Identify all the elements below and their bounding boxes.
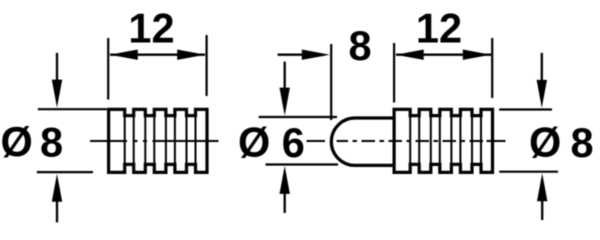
svg-text:8: 8 (571, 119, 594, 166)
dia8 left: bottom arrow (56, 196, 58, 222)
dim 12 left: dimension line (110, 54, 205, 56)
dowel pin nose (331, 118, 394, 165)
dim 12 left: arrowheads (110, 50, 138, 60)
dim 12 right: arrowheads (396, 50, 424, 60)
dia8 right: top arrow (541, 53, 543, 82)
svg-text:Ø: Ø (1, 119, 33, 166)
dim 12 left: extension lines (108, 35, 206, 100)
right part centerline (307, 140, 506, 142)
dia8 left: top arrow (56, 53, 58, 85)
svg-text:8: 8 (40, 119, 63, 166)
svg-text:Ø: Ø (529, 119, 561, 166)
right sleeve rib wall lines (410, 116, 481, 165)
left sleeve rib wall lines (125, 116, 196, 165)
svg-text:8: 8 (348, 22, 371, 69)
dim 8: outside arrow (278, 54, 305, 56)
svg-text:12: 12 (128, 4, 174, 51)
dim 12 right: dimension line (396, 54, 491, 56)
dia6: top arrow (284, 62, 286, 93)
svg-text:12: 12 (416, 5, 462, 52)
dia8 right: bottom arrow (541, 196, 543, 220)
left sleeve outline (109, 109, 207, 172)
right sleeve outline (394, 109, 492, 172)
dia8 right: extension lines (499, 110, 558, 172)
dim 8 right part: extension line at nose tip (330, 44, 332, 120)
svg-text:Ø 6: Ø 6 (238, 119, 305, 166)
left sleeve centerline (90, 140, 219, 142)
dia8 left: extension lines (37, 109, 107, 172)
dia6: extension lines (259, 117, 338, 165)
dim 12 right: extension lines (394, 38, 492, 103)
dia6: bottom arrow (284, 190, 286, 213)
